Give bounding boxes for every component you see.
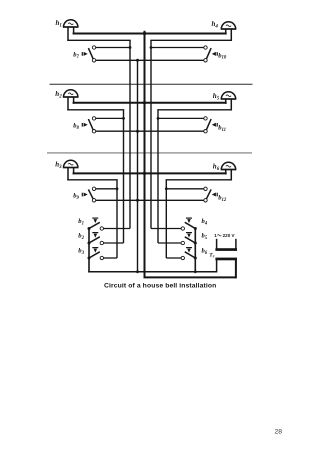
button b4 node	[194, 227, 197, 230]
wire	[151, 47, 204, 49]
button b7 contact	[92, 46, 95, 49]
floor separator line 2	[47, 152, 252, 154]
wire	[157, 109, 232, 111]
wire	[96, 47, 130, 49]
wire	[73, 102, 227, 104]
wire	[67, 97, 69, 111]
wire	[67, 179, 117, 181]
node	[165, 187, 168, 190]
node	[136, 199, 139, 202]
wire	[73, 97, 75, 104]
wire	[157, 110, 159, 243]
wire	[166, 257, 181, 259]
button b9 actuator	[81, 193, 83, 197]
transformer Tr primary winding	[215, 248, 237, 251]
button b10 contact	[204, 59, 207, 62]
bell h1	[63, 20, 79, 27]
wire	[104, 257, 118, 259]
wire	[158, 242, 181, 244]
wire	[104, 228, 131, 230]
button b11 contact	[204, 130, 207, 133]
floor separator line 1	[50, 83, 253, 85]
button b10 arm	[206, 48, 211, 59]
button b6 node	[194, 257, 197, 260]
wire	[104, 242, 124, 244]
button b12 contact	[204, 187, 207, 190]
button b8 contact	[92, 117, 95, 120]
wire	[67, 168, 69, 181]
button b5 contact	[181, 241, 184, 244]
wire	[230, 29, 232, 41]
button b1 arm	[89, 222, 100, 228]
wire	[166, 188, 204, 190]
button b11 actuator	[216, 123, 218, 127]
transformer Tr primary terminal	[216, 239, 218, 249]
wire	[67, 109, 124, 111]
wire	[230, 99, 232, 111]
svg-text:Tr: Tr	[209, 253, 214, 259]
button b5 arm	[185, 237, 196, 243]
button b3 actuator	[92, 247, 98, 249]
button b10 actuator	[216, 52, 218, 56]
wire	[151, 228, 181, 230]
transformer Tr secondary terminal	[216, 260, 218, 272]
node	[143, 172, 146, 175]
button b9 contact	[92, 199, 95, 202]
bell h3	[63, 160, 79, 167]
wire	[96, 188, 117, 190]
wire left button bus	[88, 228, 90, 273]
button b12 actuator	[216, 193, 218, 197]
wire	[73, 168, 75, 175]
wire	[225, 29, 227, 35]
wire	[67, 27, 69, 41]
button b8 arm	[88, 119, 93, 130]
transformer Tr secondary winding	[215, 258, 237, 261]
wire	[96, 130, 204, 132]
button b6 arm	[185, 252, 196, 258]
button b1 node	[88, 227, 91, 230]
wire	[235, 260, 237, 279]
button b7 contact	[92, 59, 95, 62]
svg-text:1: 1	[214, 233, 217, 238]
button b12 contact	[204, 199, 207, 202]
button b4 contact	[181, 227, 184, 230]
svg-text:28: 28	[275, 429, 283, 436]
wire	[225, 99, 227, 104]
bell h5	[221, 92, 237, 99]
button b1 actuator	[92, 217, 98, 219]
wire	[96, 199, 204, 201]
node	[143, 101, 146, 104]
button b4 actuator	[186, 217, 192, 219]
wire	[73, 33, 227, 35]
node	[136, 130, 139, 133]
wire	[96, 59, 204, 61]
wire common bus	[144, 31, 146, 278]
button b7 actuator	[81, 52, 83, 56]
wire	[129, 40, 131, 228]
button b7 arm	[88, 48, 93, 59]
node	[122, 117, 125, 120]
node	[136, 59, 139, 62]
svg-text:Circuit of a house bell instal: Circuit of a house bell installation	[104, 283, 216, 290]
button b3 contact	[100, 256, 103, 259]
node	[157, 117, 160, 120]
svg-text:220 V: 220 V	[223, 233, 236, 238]
wire	[116, 180, 118, 258]
wire	[73, 27, 75, 35]
node	[194, 270, 197, 273]
wire	[73, 172, 227, 174]
wire	[150, 39, 232, 41]
button b10 contact	[204, 46, 207, 49]
button b2 node	[88, 242, 91, 245]
node	[116, 187, 119, 190]
button b11 arm	[206, 119, 211, 130]
bell h2	[63, 90, 79, 97]
node	[150, 46, 153, 49]
button b6 contact	[181, 256, 184, 259]
button b2 actuator	[92, 232, 98, 234]
node	[143, 32, 146, 35]
node	[136, 270, 139, 273]
button b3 arm	[89, 252, 100, 258]
button b6 actuator	[186, 247, 192, 249]
button b9 arm	[88, 189, 93, 199]
wire	[165, 180, 167, 258]
node	[129, 46, 132, 49]
button b1 contact	[100, 227, 103, 230]
button b5 actuator	[186, 232, 192, 234]
button b8 contact	[92, 130, 95, 133]
button b8 actuator	[81, 123, 83, 127]
bell h6	[221, 162, 237, 169]
button b2 contact	[100, 241, 103, 244]
wire	[144, 276, 236, 278]
wire	[96, 117, 124, 119]
wire	[225, 170, 227, 175]
wire	[158, 117, 204, 119]
button b12 arm	[206, 189, 211, 199]
wire	[67, 39, 130, 41]
transformer Tr primary terminal	[235, 239, 237, 249]
wire	[166, 179, 232, 181]
button b5 node	[194, 242, 197, 245]
wire	[88, 271, 217, 273]
wire right button bus	[194, 228, 196, 272]
wire	[123, 110, 125, 243]
wire	[150, 40, 152, 228]
button b3 node	[88, 257, 91, 260]
wire	[230, 170, 232, 181]
button b2 arm	[89, 237, 100, 243]
wire return bus	[137, 60, 139, 271]
button b11 contact	[204, 117, 207, 120]
button b4 arm	[185, 222, 196, 228]
bell h4	[221, 22, 237, 29]
button b9 contact	[92, 187, 95, 190]
